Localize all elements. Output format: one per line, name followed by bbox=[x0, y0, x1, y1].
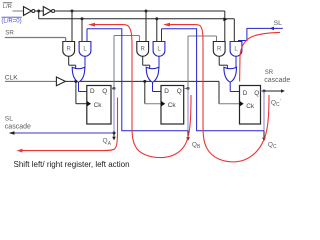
wire red path QA to SL cascade bbox=[22, 98, 118, 151]
svg-text:Q: Q bbox=[102, 88, 107, 95]
svg-text:SR: SR bbox=[265, 70, 274, 76]
overline for L/R label bbox=[3, 2, 12, 4]
wire QC feedback to L2 (left-shift path) bbox=[162, 29, 265, 131]
wire QC down bbox=[263, 91, 265, 131]
wire OR2 output down bbox=[152, 82, 154, 91]
wire drop to L2 gate bbox=[156, 19, 158, 42]
and gate R3 bbox=[213, 42, 225, 57]
wire R1 output into OR1 bbox=[75, 65, 77, 69]
wire SR input bbox=[5, 37, 66, 39]
svg-text:cascade: cascade bbox=[264, 77, 290, 84]
wire clock into FF3 Ck bbox=[219, 103, 240, 105]
svg-text:SR: SR bbox=[5, 30, 14, 37]
wire SR cascade arrow bbox=[281, 89, 285, 93]
svg-text:L/R: L/R bbox=[3, 4, 12, 10]
and gate R2 bbox=[137, 42, 149, 57]
wire red path QC to L2 bbox=[169, 25, 269, 162]
svg-text:R: R bbox=[141, 46, 146, 52]
wire rail end drop to R3 gate bbox=[224, 11, 226, 42]
node junction clock FF1 bbox=[74, 80, 77, 83]
inverter U1 bbox=[24, 7, 32, 16]
wire QB down bbox=[187, 88, 189, 130]
wire OR1 output down bbox=[78, 82, 80, 91]
wire R2 output into OR2 bbox=[149, 65, 151, 69]
wire clock rail bbox=[65, 80, 219, 82]
wire clock drop FF1 bbox=[75, 81, 77, 103]
wire drop to R1 gate bbox=[71, 11, 73, 42]
wire L1 right input from QB feedback bbox=[86, 29, 88, 42]
wire red path SL into FF3 bbox=[240, 32, 280, 81]
node QA junction bbox=[113, 87, 116, 90]
wire drop to R2 gate bbox=[145, 11, 147, 42]
wire L2 right input from QC feedback bbox=[161, 29, 163, 42]
wire CLK input bbox=[5, 80, 56, 82]
buffer U3 clock driver bbox=[56, 77, 65, 86]
wire L/R input to inverter U1 bbox=[13, 10, 24, 12]
wire clock end drop FF3 bbox=[218, 81, 220, 103]
wire OR2 output to FF2 D bbox=[153, 91, 162, 93]
node QB junction bbox=[187, 87, 190, 90]
wire OR3 output down bbox=[229, 82, 231, 91]
overline for (L/R=0) label bbox=[2, 16, 22, 18]
svg-text:SL: SL bbox=[274, 20, 283, 27]
wire red path QB to L1 bbox=[94, 25, 191, 158]
and gate L2 bbox=[153, 42, 165, 57]
node junction L-enable tap bbox=[37, 10, 40, 13]
wire QB up to next stage bbox=[187, 36, 189, 88]
svg-text:Ck: Ck bbox=[168, 102, 177, 109]
wire SL cascade arrowhead bbox=[9, 131, 15, 135]
wire drop to L1 gate bbox=[81, 19, 83, 42]
wire OR1 output to FF1 D bbox=[79, 91, 87, 93]
wire QA down bbox=[113, 88, 115, 133]
inverter U2 bbox=[43, 7, 51, 16]
wire R1 left input stub bbox=[65, 38, 67, 42]
wire clock drop FF2 bbox=[144, 81, 146, 103]
and gate L3 bbox=[230, 42, 242, 57]
wire QB output arrow down bbox=[187, 131, 189, 138]
node QC junction bbox=[263, 90, 266, 93]
svg-text:R: R bbox=[217, 46, 222, 52]
or gate OR1 bbox=[72, 67, 85, 82]
wire QA up to next stage bbox=[113, 36, 115, 89]
wire SR into R1 left input bbox=[65, 38, 67, 42]
node junction clock FF1 overlay bbox=[75, 80, 78, 83]
svg-text:R: R bbox=[67, 46, 72, 52]
svg-text:Q: Q bbox=[177, 88, 182, 95]
or gate OR3 bbox=[224, 67, 237, 82]
wire OR3 output to FF3 D bbox=[230, 91, 239, 93]
wire L1 output into OR1 bbox=[84, 56, 86, 68]
wire SR cascade out bbox=[264, 90, 282, 92]
flip-flop FF1 bbox=[87, 86, 111, 125]
wire SL input to L3 bbox=[239, 28, 283, 41]
wire QB into R3 left input bbox=[216, 36, 218, 42]
wire clock into FF2 Ck bbox=[145, 103, 161, 105]
svg-text:CLK: CLK bbox=[5, 75, 18, 82]
node junction L1 enable bbox=[81, 17, 84, 20]
wire QA into R2 left input bbox=[138, 36, 140, 42]
wire rail end drop to L3 gate bbox=[233, 19, 235, 42]
flip-flop FF2 bbox=[161, 86, 184, 125]
wire R3 output down bbox=[218, 56, 220, 65]
svg-text:Ck: Ck bbox=[246, 103, 255, 110]
svg-text:QC: QC bbox=[268, 141, 277, 150]
wire QA to SL cascade output bbox=[13, 132, 114, 134]
wire QC output arrow down bbox=[263, 131, 265, 138]
wire QA right to R2 bbox=[114, 35, 139, 37]
node QA to SL cascade junction bbox=[113, 132, 116, 135]
wire R2 output right bbox=[143, 64, 150, 66]
svg-text:D: D bbox=[164, 88, 169, 95]
svg-text:Q: Q bbox=[254, 90, 259, 97]
node junction L2 enable bbox=[155, 17, 158, 20]
svg-text:QB: QB bbox=[192, 142, 201, 151]
and gate R1 bbox=[63, 42, 75, 57]
wire L3 output into OR3 bbox=[235, 56, 237, 68]
wire L2 output into OR2 bbox=[158, 56, 160, 68]
svg-text:D: D bbox=[90, 88, 95, 95]
or gate OR2 bbox=[146, 67, 159, 82]
svg-text:D: D bbox=[243, 90, 248, 97]
wire rail R-enable (top rail) bbox=[55, 10, 225, 12]
wire SL arrowhead bbox=[270, 27, 274, 31]
wire L-enable down from junction bbox=[38, 11, 40, 19]
wire R3 output right bbox=[219, 64, 227, 66]
wire R3 output into OR3 bbox=[226, 65, 228, 69]
node junction clock FF2 overlay bbox=[143, 80, 146, 83]
svg-text:QA: QA bbox=[103, 137, 112, 147]
wire clock into FF1 Ck bbox=[76, 103, 87, 105]
wire R1 output right bbox=[69, 64, 76, 66]
svg-text:Ck: Ck bbox=[94, 102, 103, 109]
wire rail L-enable (second rail) bbox=[39, 18, 235, 20]
flip-flop FF3 bbox=[240, 86, 261, 125]
wire FF2 Q output bbox=[184, 87, 188, 89]
junction marker on L-enable rail crossing bbox=[223, 18, 227, 22]
wire QB right to R3 bbox=[188, 35, 217, 37]
wire QA output arrow down bbox=[113, 133, 115, 137]
wire U1 output to U2 bbox=[35, 10, 44, 12]
node junction R2 enable bbox=[145, 10, 148, 13]
svg-text:Shift left/ right register, le: Shift left/ right register, left action bbox=[14, 160, 130, 169]
svg-text:SL: SL bbox=[5, 116, 13, 123]
node junction clock FF2 bbox=[143, 80, 146, 83]
and gate L1 bbox=[79, 42, 91, 57]
svg-text:cascade: cascade bbox=[5, 123, 31, 130]
wire R2 output down bbox=[142, 56, 144, 65]
wire FF3 Q output bbox=[261, 90, 265, 92]
wire FF1 Q output bbox=[111, 87, 114, 89]
wire QB feedback to L1 (left-shift path) bbox=[87, 29, 188, 131]
wire R1 output down bbox=[68, 56, 70, 65]
svg-text:QC′: QC′ bbox=[271, 99, 281, 108]
node junction R1 enable bbox=[71, 10, 74, 13]
svg-text:(L/R=0): (L/R=0) bbox=[1, 18, 21, 24]
